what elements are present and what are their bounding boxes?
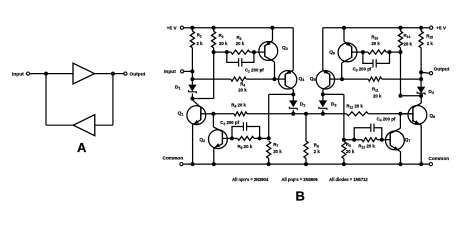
- svg-text:2 k: 2 k: [197, 41, 204, 46]
- svg-text:20 k: 20 k: [238, 88, 247, 93]
- svg-text:Output: Output: [130, 71, 146, 77]
- svg-text:20 k: 20 k: [346, 149, 355, 154]
- svg-text:All npn's = 2N3904: All npn's = 2N3904: [232, 177, 269, 182]
- svg-text:+5 V: +5 V: [167, 25, 178, 31]
- svg-text:20 k: 20 k: [371, 41, 380, 46]
- svg-text:Input: Input: [164, 69, 176, 75]
- svg-text:All diodes = 1N5712: All diodes = 1N5712: [329, 177, 368, 182]
- svg-text:20 k: 20 k: [273, 149, 282, 154]
- svg-text:20 k: 20 k: [404, 41, 413, 46]
- svg-text:Common: Common: [428, 156, 449, 162]
- svg-text:Output: Output: [434, 66, 450, 72]
- svg-text:Common: Common: [163, 155, 184, 161]
- svg-text:Input: Input: [12, 71, 24, 77]
- svg-text:2 k: 2 k: [427, 41, 434, 46]
- svg-text:2 k: 2 k: [314, 149, 321, 154]
- svg-text:20 k: 20 k: [373, 93, 382, 98]
- svg-text:All pnp's = 2N3906: All pnp's = 2N3906: [282, 177, 319, 182]
- svg-text:+5 V: +5 V: [436, 25, 447, 31]
- svg-text:A: A: [77, 140, 87, 155]
- svg-text:20 k: 20 k: [219, 41, 228, 46]
- svg-text:20 k: 20 k: [236, 41, 245, 46]
- svg-text:B: B: [296, 188, 305, 203]
